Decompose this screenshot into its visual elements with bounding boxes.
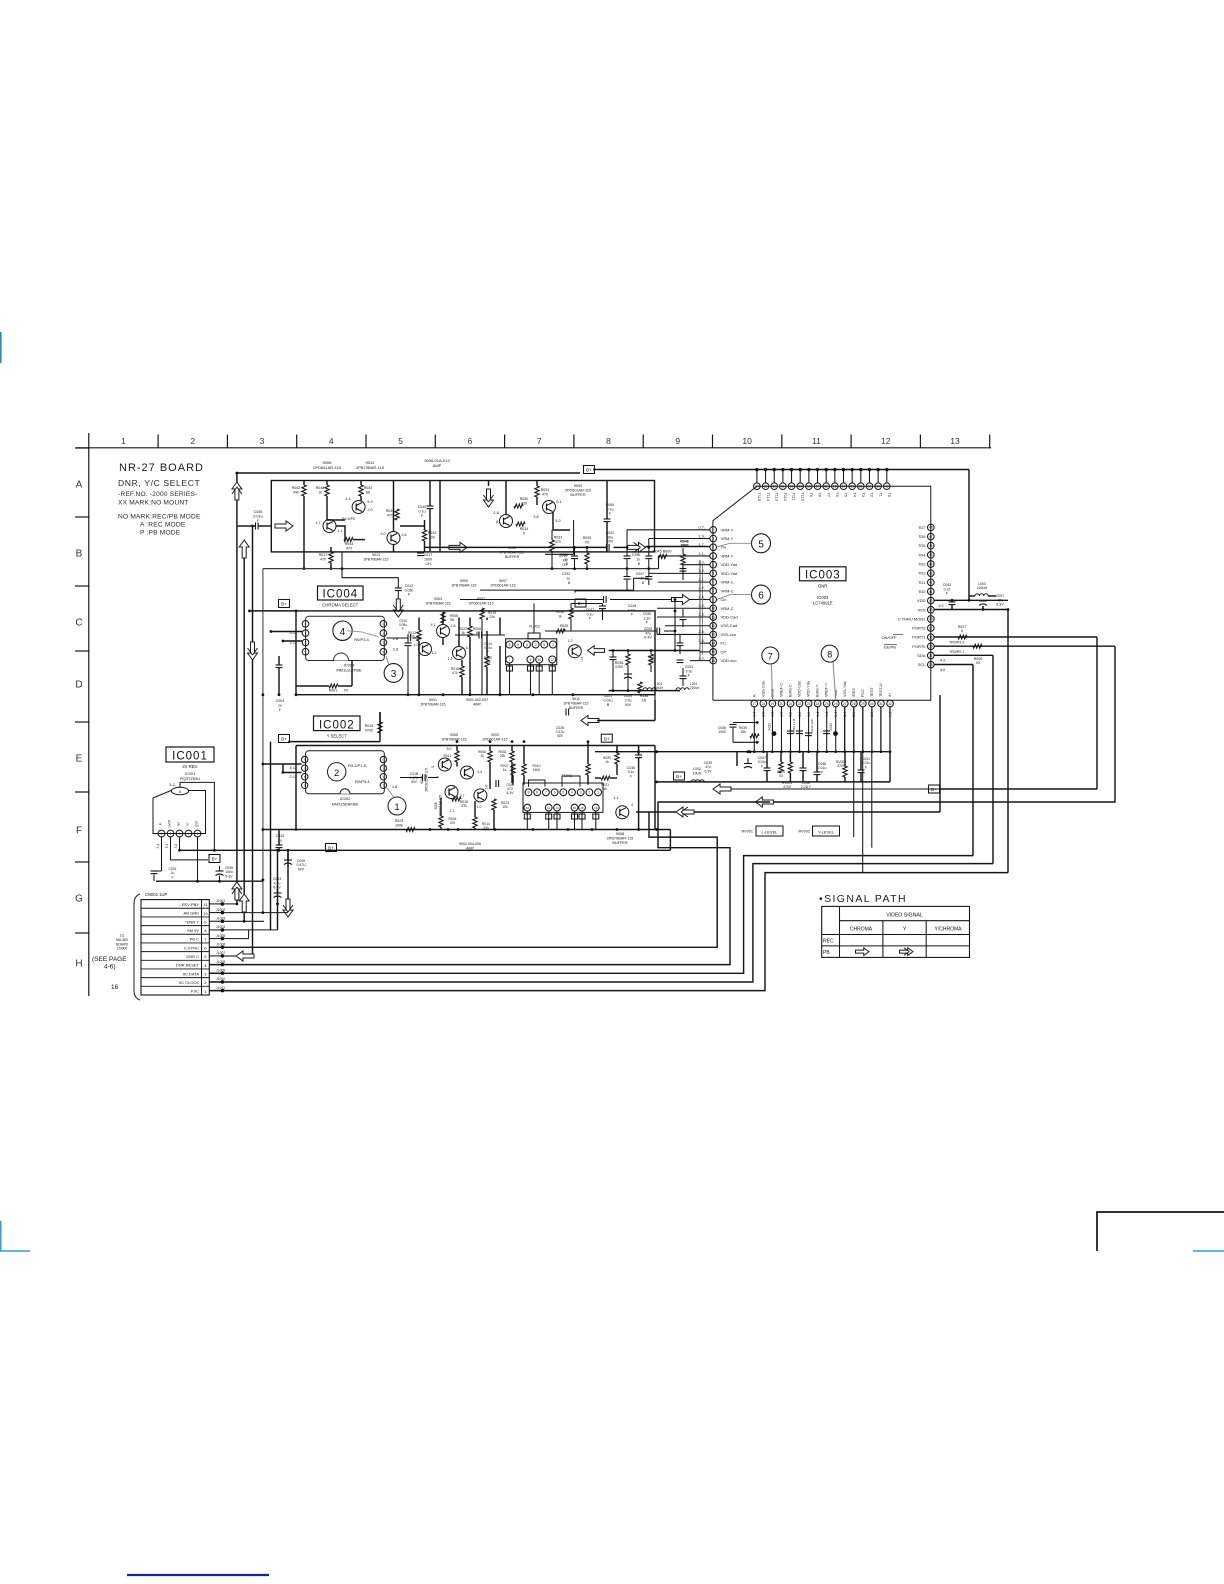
capacitor C014 — [484, 642, 492, 654]
svg-text:8: 8 — [496, 520, 498, 524]
label 9004 rotated — [420, 768, 429, 792]
inductor L004 — [638, 682, 664, 693]
wire SCL right — [934, 665, 973, 672]
resistor R038c — [556, 604, 573, 632]
wire pins 27-32 down — [845, 707, 890, 873]
wire vertical bus line JL001 net — [236, 473, 238, 904]
svg-text:9001.002-007: 9001.002-007 — [466, 698, 488, 702]
svg-text:•SIGNAL PATH: •SIGNAL PATH — [819, 893, 907, 905]
svg-text:7: 7 — [509, 658, 511, 662]
transistor Q row2 b — [447, 747, 482, 779]
svg-text:EE/PB: EE/PB — [884, 645, 896, 650]
svg-text:9: 9 — [528, 791, 530, 795]
svg-text:1u: 1u — [278, 838, 282, 842]
svg-text:C296: C296 — [632, 553, 640, 557]
capacitor C010 — [399, 619, 411, 695]
svg-text:out: out — [177, 822, 181, 827]
IC003 right pins 48-33 — [898, 524, 934, 668]
svg-text:JL002: JL002 — [216, 908, 225, 912]
svg-text:1.9,: 1.9, — [698, 533, 705, 538]
resistor R004 — [439, 798, 457, 830]
IC003 sublabels — [813, 584, 833, 606]
svg-text:TD3: TD3 — [918, 562, 926, 567]
transistor Q 9012 top — [345, 497, 372, 514]
wire riser p5 — [682, 564, 684, 580]
svg-text:L002: L002 — [693, 767, 701, 771]
svg-text:TD0: TD0 — [918, 589, 926, 594]
resistor R032 — [499, 746, 515, 784]
svg-text:1u: 1u — [566, 577, 570, 581]
arrow right to Cin — [672, 595, 690, 605]
resistor R025 — [556, 624, 568, 633]
svg-text:XX: XX — [344, 689, 349, 693]
svg-text:6: 6 — [517, 643, 519, 647]
svg-text:5: 5 — [758, 539, 764, 550]
svg-text:F: F — [589, 617, 591, 621]
svg-text:2PD601AR-115: 2PD601AR-115 — [439, 795, 443, 817]
svg-text:42: 42 — [929, 581, 933, 585]
label 9007 — [469, 597, 494, 605]
svg-text:53: 53 — [850, 485, 854, 489]
hybrid box 9002 row — [288, 712, 380, 742]
vertical wire x440 — [439, 481, 441, 552]
svg-text:*DNR Y: *DNR Y — [185, 919, 199, 924]
svg-text:9005: 9005 — [450, 733, 458, 737]
left pins wires IC004 — [270, 630, 303, 642]
svg-text:2PD601AR-115: 2PD601AR-115 — [491, 583, 516, 587]
hybrid amp box 9006-01A-013 — [271, 481, 654, 552]
wire x940 down — [939, 695, 941, 812]
svg-text:20: 20 — [780, 702, 784, 706]
svg-text:0: 0 — [523, 531, 525, 535]
svg-text:1: 1 — [552, 643, 554, 647]
svg-text:2PB70BAR-115: 2PB70BAR-115 — [363, 557, 388, 561]
svg-text:T5: T5 — [844, 493, 848, 497]
svg-text:F: F — [946, 592, 948, 596]
svg-text:C027: C027 — [636, 572, 644, 576]
label 9003 — [425, 597, 450, 605]
wire riser p7 — [658, 582, 660, 584]
resistor R023b — [492, 799, 509, 830]
wire port1 right — [934, 637, 1097, 645]
IC003 top bus wire — [757, 469, 969, 471]
svg-text:50V: 50V — [625, 703, 632, 707]
supply box B+ row2 right — [601, 734, 612, 742]
svg-text:3: 3 — [179, 832, 181, 836]
svg-text:3900: 3900 — [681, 544, 689, 548]
svg-text:3.2,: 3.2, — [698, 612, 705, 617]
svg-text:9002: 9002 — [491, 733, 499, 737]
svg-text:60: 60 — [790, 485, 794, 489]
wire vertical line C004 net — [262, 569, 264, 913]
svg-text:T2: T2 — [870, 493, 874, 497]
resistor R024 — [422, 520, 436, 552]
capacitor C left — [610, 651, 617, 691]
capacitor hang 617 — [680, 609, 687, 627]
svg-text:5-1: 5-1 — [156, 843, 160, 848]
svg-text:220uH: 220uH — [690, 686, 700, 690]
resistor R027 — [958, 625, 967, 639]
svg-text:1.1: 1.1 — [337, 529, 342, 533]
resistor R045 B600 — [653, 550, 672, 569]
resistor R030 horizontal — [514, 497, 528, 508]
capacitor C027 — [636, 569, 652, 585]
svg-text:4.1: 4.1 — [431, 623, 436, 627]
svg-text:6.3V: 6.3V — [996, 603, 1004, 607]
svg-text:52: 52 — [859, 485, 863, 489]
label 9011 buffer — [563, 697, 588, 710]
wire rail y829 row2 — [263, 829, 671, 831]
svg-text:2PD601AR-115: 2PD601AR-115 — [469, 601, 494, 605]
svg-text:59: 59 — [798, 485, 802, 489]
svg-text:5.1,: 5.1, — [290, 766, 296, 770]
svg-text:2.1,: 2.1, — [698, 577, 705, 582]
capacitor C019 — [559, 547, 578, 568]
supply box B+ L002 — [674, 772, 688, 782]
svg-text:1k: 1k — [562, 628, 566, 632]
label 9006 rotated — [434, 795, 443, 817]
wire riser p4 — [658, 556, 660, 569]
svg-text:3: 3 — [260, 436, 265, 446]
resistor R017 — [319, 547, 333, 570]
svg-text:T112: T112 — [783, 493, 787, 501]
svg-text:4: 4 — [329, 436, 334, 446]
svg-text:1N: 1N — [642, 699, 647, 703]
svg-text:CHROMA SELECT: CHROMA SELECT — [322, 603, 358, 608]
svg-text:6-3V: 6-3V — [507, 791, 515, 795]
svg-text:5: 5 — [431, 766, 435, 768]
svg-text:NR-27 BOARD: NR-27 BOARD — [119, 462, 204, 474]
filter block FL002 — [506, 625, 557, 695]
resistor R022 — [455, 627, 505, 639]
svg-text:6: 6 — [758, 591, 764, 602]
resistor R026 — [583, 536, 592, 569]
wire ground rail y852 — [180, 849, 671, 851]
svg-text:IC003: IC003 — [817, 595, 829, 600]
svg-text:DNR, Y/C SELECT: DNR, Y/C SELECT — [118, 478, 201, 488]
capacitor C090 — [604, 481, 615, 552]
capacitor C296 — [632, 547, 652, 568]
resistor R008b — [478, 746, 492, 790]
svg-text:R030: R030 — [520, 497, 529, 501]
svg-text:2.6: 2.6 — [401, 533, 406, 537]
svg-text:8: 8 — [305, 641, 307, 645]
svg-text:1: 1 — [121, 436, 126, 446]
svg-text:1k: 1k — [480, 754, 484, 758]
junction J-019 dots — [768, 723, 838, 736]
svg-text:E: E — [76, 754, 83, 765]
resistor R019 — [480, 608, 496, 695]
svg-text:L-LEVEL: L-LEVEL — [761, 830, 778, 835]
svg-text:VREF-Y: VREF-Y — [825, 683, 829, 697]
label 9002 — [483, 733, 508, 741]
transistor Q mid2 — [414, 643, 437, 656]
svg-text:46: 46 — [929, 544, 933, 548]
svg-text:470: 470 — [542, 492, 548, 496]
svg-text:9009: 9009 — [574, 484, 582, 488]
svg-text:AMP: AMP — [473, 702, 481, 706]
capacitor hang 676 — [680, 668, 687, 686]
label C030 — [643, 612, 651, 625]
svg-text:VSS-Cad: VSS-Cad — [721, 623, 738, 628]
svg-text:12: 12 — [881, 436, 891, 446]
capacitor C037 — [586, 604, 606, 621]
label C021 C024 R038 — [604, 694, 649, 707]
svg-text:11: 11 — [203, 902, 208, 907]
svg-text:7: 7 — [305, 631, 307, 635]
capacitor C039b — [216, 866, 234, 881]
svg-text:R0/P3.4,: R0/P3.4, — [355, 779, 371, 784]
wire rail y782 bottom — [687, 752, 890, 782]
svg-text:RV001: RV001 — [741, 830, 753, 834]
svg-text:B+: B+ — [676, 774, 682, 779]
label 9008 buffer — [607, 832, 634, 845]
svg-text:470: 470 — [452, 671, 458, 675]
resistor R023 100k — [395, 819, 415, 832]
resistor R015 — [365, 712, 382, 733]
svg-text:B+: B+ — [212, 857, 218, 862]
svg-text:100k: 100k — [395, 823, 403, 827]
wire 9009 emitter right — [553, 512, 570, 530]
svg-text:5: 5 — [197, 832, 199, 836]
regulator pin labels — [159, 820, 199, 828]
junction dots rail 829 — [295, 828, 658, 831]
svg-text:5: 5 — [562, 791, 564, 795]
svg-text:JL007: JL007 — [216, 951, 225, 955]
svg-text:6: 6 — [179, 790, 181, 794]
svg-text:T8: T8 — [818, 493, 822, 497]
svg-text:R015: R015 — [365, 724, 374, 728]
svg-text:61: 61 — [781, 485, 785, 489]
resistor R046b — [680, 548, 687, 580]
svg-text:→EEV-PBY: →EEV-PBY — [178, 902, 199, 907]
svg-text:TD2: TD2 — [918, 571, 926, 576]
regulator rotated values — [156, 843, 178, 848]
svg-text:3-0: 3-0 — [555, 519, 561, 523]
svg-text:R043: R043 — [364, 486, 373, 490]
svg-text:2.6,: 2.6, — [698, 594, 705, 599]
svg-text:1.0: 1.0 — [477, 805, 482, 809]
svg-text:3.2,: 3.2, — [698, 568, 705, 573]
svg-text:JL003: JL003 — [216, 916, 225, 920]
IC004 label box — [318, 586, 364, 601]
capacitor C005 — [284, 852, 306, 871]
IC003 bottom pins 17-32 — [751, 680, 893, 717]
capacitor C pol — [624, 668, 632, 679]
test point circle 3 — [384, 656, 403, 682]
wire riser p8b — [574, 590, 576, 593]
transistor Q 9009 — [533, 500, 561, 523]
svg-text:IC001: IC001 — [172, 751, 208, 763]
svg-text:T9: T9 — [809, 493, 813, 497]
svg-text:R031: R031 — [541, 488, 550, 492]
capacitor C035 — [627, 746, 642, 830]
svg-text:C045: C045 — [253, 510, 262, 514]
svg-text:/RES: /RES — [852, 688, 856, 697]
svg-text:1: 1 — [394, 802, 399, 813]
svg-text:F: F — [631, 613, 633, 617]
arrow right at C045 — [275, 521, 293, 531]
svg-text:gnd: gnd — [195, 821, 199, 827]
svg-text:4: 4 — [526, 643, 528, 647]
svg-text:AN GND: AN GND — [183, 911, 199, 916]
svg-text:F: F — [630, 774, 632, 778]
svg-text:2.6,: 2.6, — [698, 638, 705, 643]
svg-text:33: 33 — [929, 663, 933, 667]
svg-text:R: R — [752, 694, 756, 697]
svg-text:2: 2 — [204, 980, 207, 985]
svg-text:CP: CP — [721, 649, 727, 654]
svg-text:4: 4 — [631, 803, 633, 807]
svg-text:1: 1 — [161, 832, 163, 836]
svg-text:3.2,: 3.2, — [698, 655, 705, 660]
svg-text:C: C — [75, 618, 82, 629]
svg-text:Y SELECT: Y SELECT — [327, 734, 348, 739]
label 9009 buffer — [565, 484, 591, 497]
svg-text:6: 6 — [468, 436, 473, 446]
svg-text:DNR RESET: DNR RESET — [176, 963, 200, 968]
inductor L002 — [655, 767, 704, 783]
svg-text:C040: C040 — [418, 505, 427, 509]
transistor Q 9003 — [431, 623, 456, 638]
wires IC004 interior — [419, 618, 500, 695]
svg-text:32: 32 — [888, 702, 892, 706]
svg-text:XX: XX — [585, 541, 590, 545]
svg-text:1000: 1000 — [718, 730, 726, 734]
svg-text:PORT2: PORT2 — [912, 626, 926, 631]
svg-text:1.1,: 1.1, — [698, 551, 705, 556]
svg-text:T111: T111 — [792, 493, 796, 501]
wire rail y751 bottom — [595, 750, 890, 753]
svg-text:BUFFER: BUFFER — [612, 841, 627, 845]
wire VSS down — [1007, 610, 1009, 873]
wire signal y547 long — [425, 546, 607, 548]
test point circle 6 — [717, 585, 771, 604]
svg-text:27: 27 — [843, 702, 847, 706]
svg-text:1.8: 1.8 — [451, 624, 456, 628]
print mark black corner bottom-right — [1097, 1212, 1224, 1251]
arrow up bus G2 — [239, 894, 249, 912]
svg-text:9007: 9007 — [499, 579, 507, 583]
arrow up on DNR-Y bus — [239, 540, 249, 558]
svg-text:VDD-Cda: VDD-Cda — [798, 680, 802, 697]
svg-text:VREF-C: VREF-C — [779, 683, 783, 697]
resistor R042 — [292, 481, 306, 570]
svg-text:B: B — [566, 562, 569, 566]
svg-text:R034: R034 — [520, 527, 529, 531]
capacitor C039c — [704, 758, 752, 773]
svg-text:50V: 50V — [411, 780, 418, 784]
svg-text:TD5: TD5 — [918, 543, 926, 548]
svg-text:AMP: AMP — [433, 463, 442, 468]
svg-text:in: in — [159, 823, 163, 826]
svg-text:3.2: 3.2 — [938, 604, 943, 608]
IC004 sublabel CHROMA SELECT — [322, 603, 358, 608]
svg-text:4: 4 — [571, 791, 573, 795]
arrow down into IC004 — [393, 599, 403, 617]
svg-text:1k: 1k — [503, 768, 507, 772]
svg-text:Y-LEVEL: Y-LEVEL — [818, 830, 835, 835]
IC003 left pin wires with level values — [575, 525, 710, 661]
svg-text:57: 57 — [816, 485, 820, 489]
svg-text:F: F — [865, 765, 867, 769]
capacitor C018 — [460, 596, 671, 617]
svg-text:2PB70BAR-115: 2PB70BAR-115 — [563, 701, 588, 705]
svg-text:TD4: TD4 — [918, 552, 926, 557]
capacitor C017 — [417, 553, 432, 566]
arrow left row1 — [581, 700, 655, 726]
wire rail y690 cluster — [609, 690, 680, 692]
svg-text:JL005: JL005 — [216, 934, 225, 938]
svg-text:44: 44 — [929, 562, 933, 566]
svg-text:10: 10 — [742, 436, 752, 446]
svg-text:R042: R042 — [292, 486, 301, 490]
wire staircase p1 — [627, 530, 710, 548]
svg-text:10k: 10k — [502, 805, 508, 809]
svg-text:19: 19 — [771, 702, 775, 706]
svg-text:G: G — [75, 894, 83, 905]
test point circle 7 — [762, 647, 779, 699]
svg-text:2: 2 — [190, 436, 195, 446]
svg-text:1k: 1k — [318, 490, 322, 494]
svg-text:2PD601AR-115: 2PD601AR-115 — [483, 737, 508, 741]
svg-text:2.7,: 2.7, — [698, 586, 705, 591]
svg-text:JL006: JL006 — [216, 942, 225, 946]
svg-text:2-1,: 2-1, — [289, 775, 296, 779]
label TO MA-360 — [116, 934, 129, 951]
wire cluster vertical x700 gray — [700, 560, 703, 660]
svg-text:F: F — [171, 875, 173, 879]
svg-text:330: 330 — [461, 804, 467, 808]
svg-text:SM 5V: SM 5V — [187, 928, 199, 933]
arrow down on DNR-C bus — [248, 642, 258, 660]
svg-text:B+: B+ — [586, 468, 592, 473]
svg-text:TEST: TEST — [870, 687, 874, 697]
arrow in PB Y cell — [900, 948, 914, 956]
svg-text:6: 6 — [554, 791, 556, 795]
wire row1 b+ rail — [571, 603, 603, 605]
svg-text:3-2,: 3-2, — [169, 782, 176, 787]
svg-text:4: 4 — [340, 627, 346, 638]
svg-text:0: 0 — [961, 629, 963, 633]
svg-text:Y: Y — [903, 927, 907, 933]
svg-text:63: 63 — [764, 485, 768, 489]
regulator body — [153, 787, 206, 833]
svg-text:3-2: 3-2 — [174, 843, 178, 848]
svg-text:2PB70BAR-115: 2PB70BAR-115 — [441, 737, 466, 741]
svg-text:1600: 1600 — [533, 768, 541, 772]
svg-text:7: 7 — [768, 651, 773, 661]
svg-text:58: 58 — [807, 485, 811, 489]
supply box B+ right — [929, 785, 940, 793]
svg-text:31: 31 — [879, 702, 883, 706]
label 9000 — [451, 579, 476, 587]
label 9013 2PB70BAR-115 — [363, 553, 388, 561]
junction dots rail 650 — [612, 649, 653, 692]
svg-text:4: 4 — [188, 832, 190, 836]
svg-text:T0: T0 — [887, 493, 891, 497]
svg-text:BUFFER: BUFFER — [505, 555, 520, 559]
svg-text:28: 28 — [852, 702, 856, 706]
svg-text:on/off: on/off — [168, 820, 172, 828]
svg-text:MM1111XPBE: MM1111XPBE — [336, 668, 362, 673]
capacitor C022 — [606, 531, 629, 551]
svg-text:R045 B600: R045 B600 — [653, 550, 672, 554]
label EE/PB — [884, 645, 897, 650]
arrow left dnr c wire — [676, 807, 694, 817]
svg-text:FSC: FSC — [191, 989, 199, 994]
resistor R018 — [452, 797, 468, 808]
